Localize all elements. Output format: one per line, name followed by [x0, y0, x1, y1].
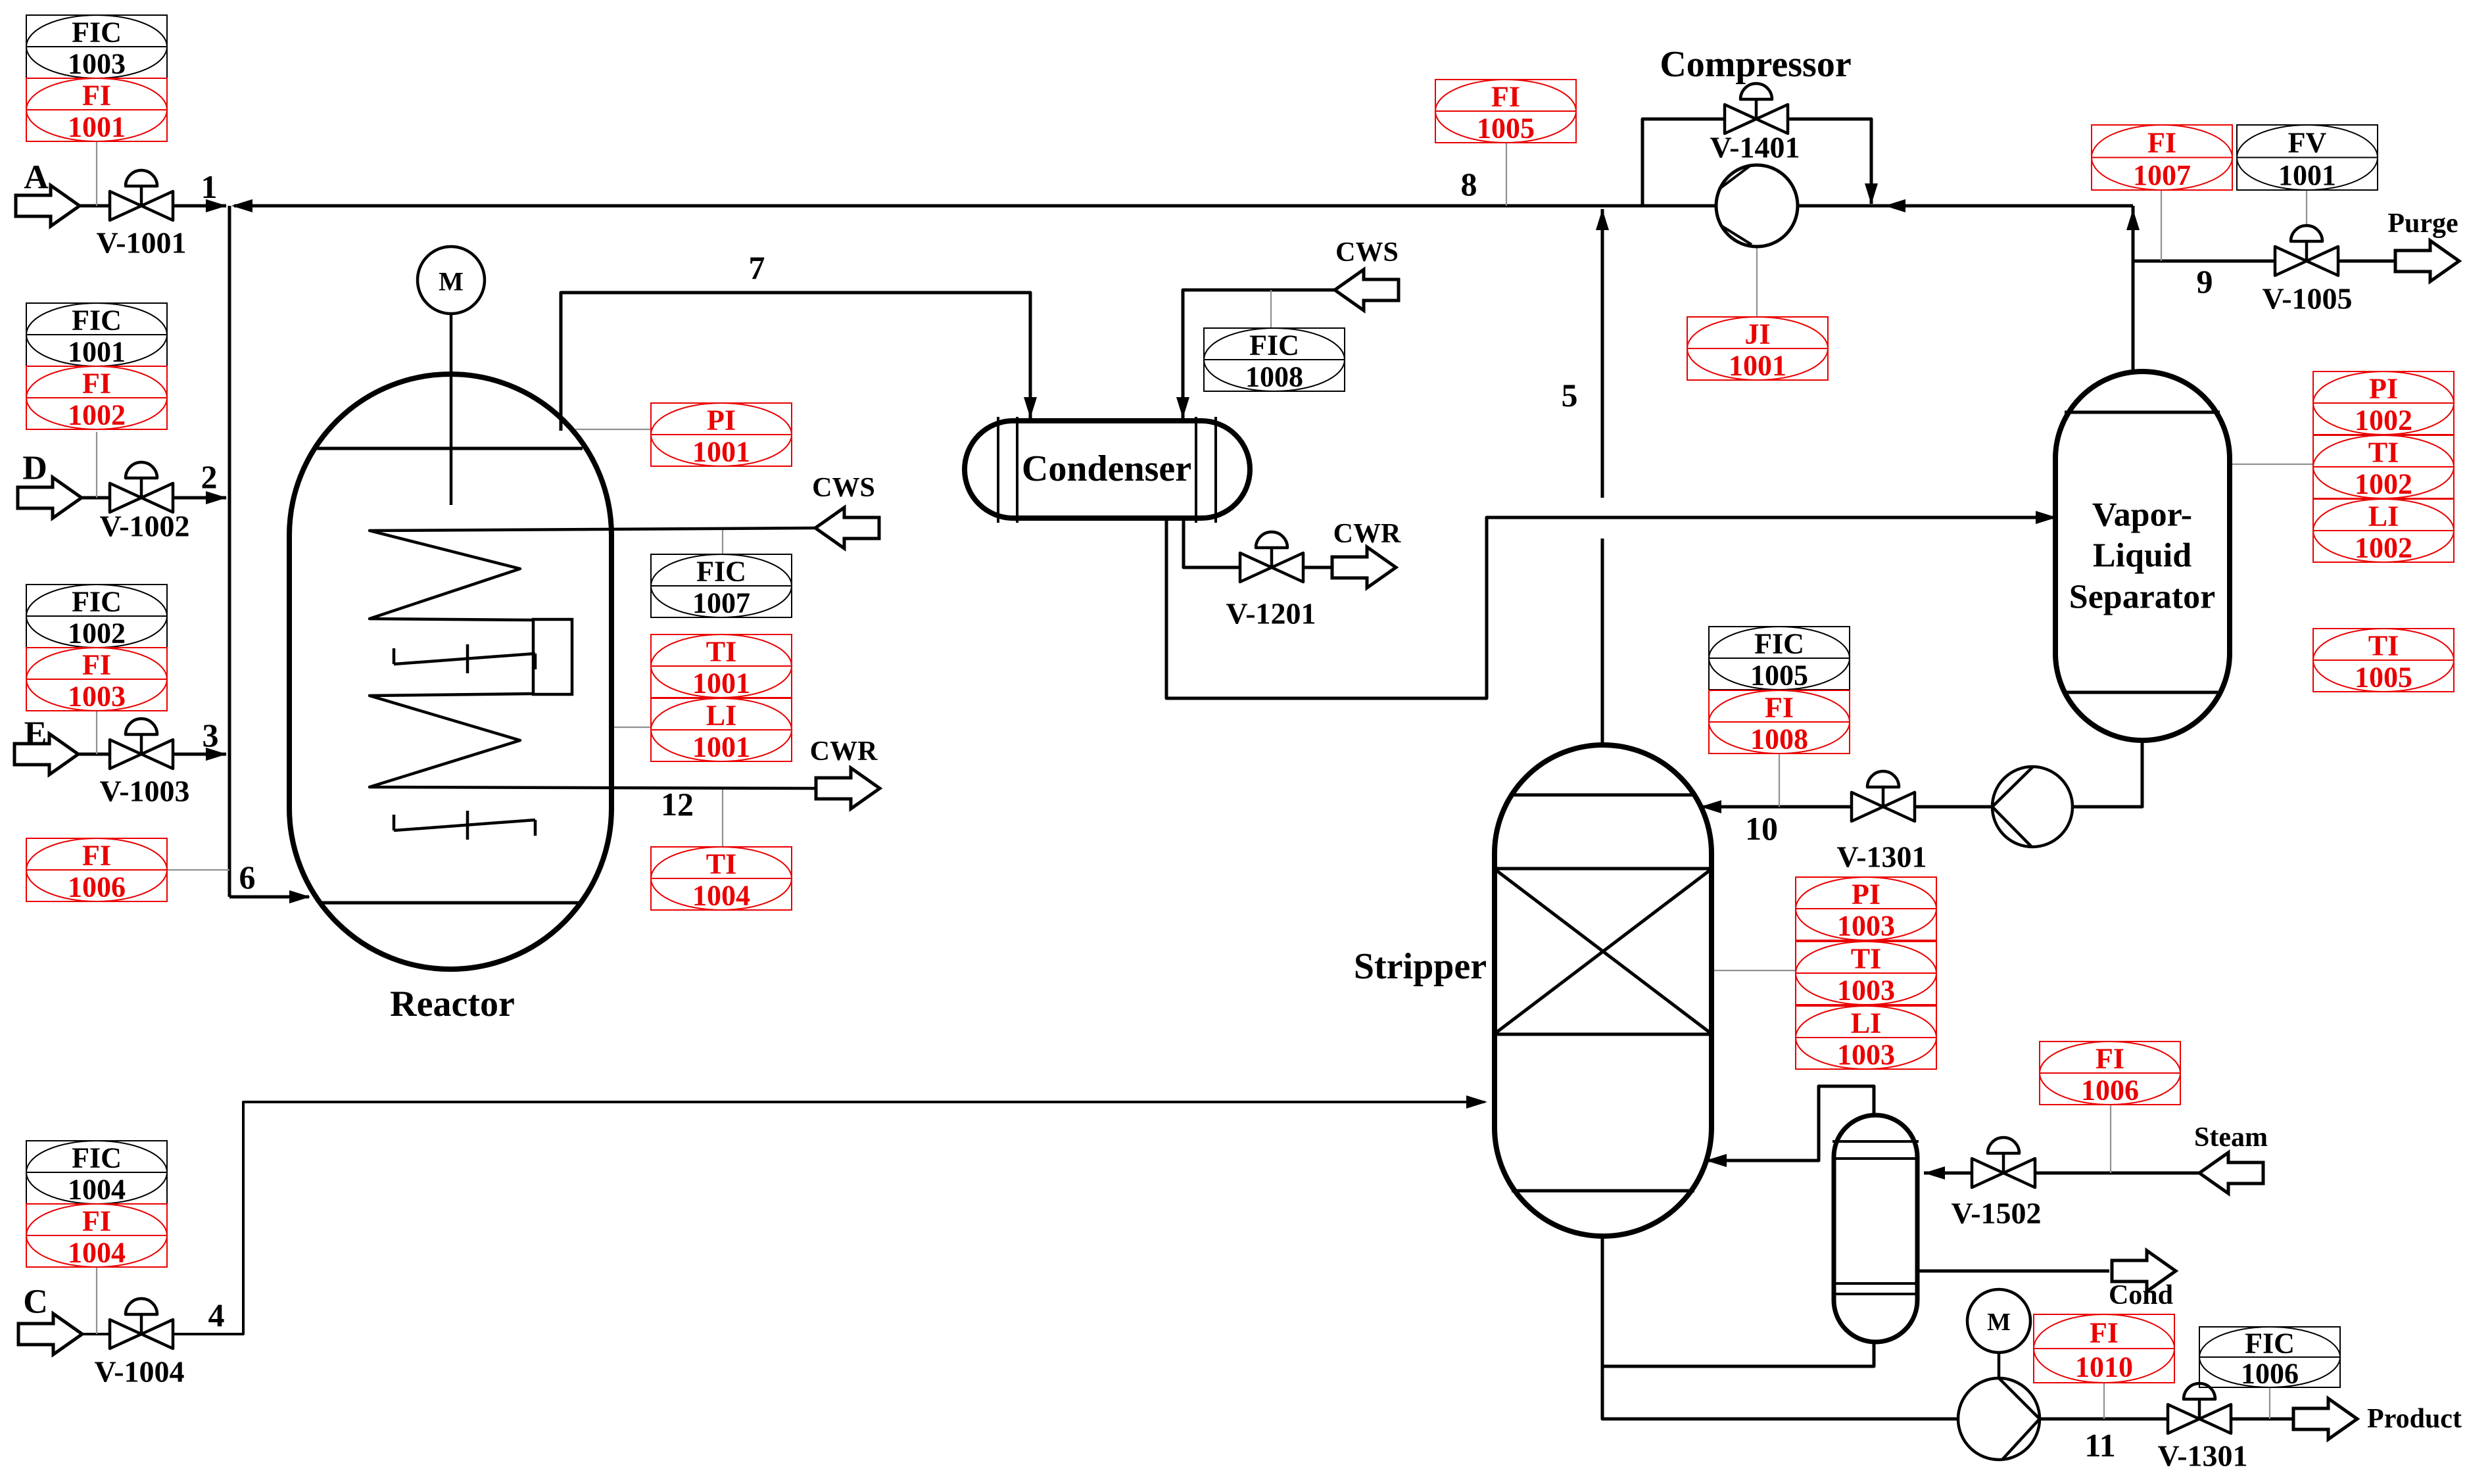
- svg-text:2: 2: [201, 458, 218, 495]
- svg-text:V-1201: V-1201: [1226, 597, 1316, 631]
- svg-text:5: 5: [1562, 377, 1578, 414]
- svg-text:1001: 1001: [692, 731, 750, 763]
- svg-text:FI: FI: [82, 840, 111, 872]
- svg-text:3: 3: [203, 717, 219, 754]
- svg-text:A: A: [24, 159, 49, 197]
- svg-text:4: 4: [208, 1297, 225, 1333]
- svg-text:D: D: [22, 450, 47, 487]
- svg-text:1002: 1002: [2355, 532, 2412, 564]
- svg-text:V-1001: V-1001: [96, 226, 186, 260]
- svg-text:E: E: [24, 715, 47, 753]
- svg-text:CWR: CWR: [1333, 519, 1401, 549]
- svg-text:FIC: FIC: [1754, 628, 1804, 660]
- svg-text:Product: Product: [2367, 1404, 2462, 1434]
- svg-text:FV: FV: [2288, 126, 2327, 158]
- svg-text:1002: 1002: [68, 617, 126, 650]
- svg-text:FI: FI: [2090, 1317, 2119, 1349]
- svg-text:7: 7: [749, 249, 765, 286]
- svg-text:FI: FI: [1491, 81, 1520, 113]
- svg-text:FIC: FIC: [72, 586, 122, 618]
- svg-text:V-1003: V-1003: [99, 775, 189, 808]
- svg-text:JI: JI: [1744, 318, 1770, 350]
- svg-text:CWR: CWR: [810, 736, 878, 767]
- svg-text:1002: 1002: [2355, 404, 2412, 437]
- svg-text:1006: 1006: [68, 871, 126, 903]
- svg-text:11: 11: [2084, 1427, 2115, 1464]
- svg-text:1005: 1005: [1477, 112, 1535, 145]
- svg-text:1001: 1001: [1729, 350, 1786, 382]
- svg-text:FIC: FIC: [1249, 329, 1299, 362]
- svg-text:8: 8: [1461, 166, 1477, 203]
- svg-text:V-1004: V-1004: [94, 1355, 184, 1389]
- svg-text:TI: TI: [2368, 630, 2399, 662]
- svg-text:1002: 1002: [2355, 468, 2412, 500]
- svg-text:1003: 1003: [1837, 974, 1895, 1007]
- svg-text:1004: 1004: [692, 880, 750, 912]
- svg-text:9: 9: [2197, 263, 2213, 300]
- svg-text:FIC: FIC: [2245, 1328, 2295, 1360]
- svg-text:FI: FI: [1765, 692, 1794, 724]
- svg-text:1005: 1005: [1750, 659, 1808, 692]
- svg-text:PI: PI: [707, 404, 736, 437]
- svg-text:V-1005: V-1005: [2262, 282, 2352, 316]
- svg-text:Cond: Cond: [2109, 1280, 2173, 1310]
- svg-text:1003: 1003: [68, 48, 126, 80]
- svg-text:PI: PI: [1852, 878, 1880, 911]
- svg-text:1010: 1010: [2075, 1351, 2133, 1383]
- svg-text:Reactor: Reactor: [390, 984, 515, 1024]
- svg-text:FIC: FIC: [696, 556, 746, 588]
- svg-text:1007: 1007: [2133, 159, 2191, 191]
- svg-text:1003: 1003: [1837, 1039, 1895, 1071]
- svg-text:Separator: Separator: [2069, 579, 2215, 616]
- svg-text:6: 6: [239, 859, 256, 896]
- svg-text:1001: 1001: [2278, 159, 2336, 191]
- svg-text:V-1401: V-1401: [1710, 131, 1800, 164]
- svg-text:Steam: Steam: [2194, 1122, 2268, 1153]
- svg-text:FIC: FIC: [72, 16, 122, 49]
- svg-text:M: M: [439, 267, 464, 297]
- svg-text:Compressor: Compressor: [1660, 44, 1851, 85]
- svg-text:V-1301: V-1301: [1836, 840, 1927, 874]
- svg-text:PI: PI: [2369, 373, 2398, 405]
- svg-text:V-1301: V-1301: [2157, 1439, 2247, 1473]
- svg-text:CWS: CWS: [812, 473, 875, 503]
- svg-text:FI: FI: [82, 368, 111, 400]
- svg-text:Purge: Purge: [2387, 208, 2458, 239]
- svg-text:1006: 1006: [2241, 1358, 2299, 1390]
- svg-text:1006: 1006: [2081, 1074, 2139, 1107]
- svg-text:1002: 1002: [68, 399, 126, 431]
- svg-text:1001: 1001: [692, 436, 750, 468]
- svg-text:10: 10: [1745, 810, 1778, 847]
- svg-text:TI: TI: [706, 636, 736, 668]
- svg-text:V-1502: V-1502: [1951, 1197, 2041, 1230]
- svg-text:TI: TI: [706, 848, 736, 880]
- svg-text:1003: 1003: [68, 681, 126, 713]
- svg-text:1001: 1001: [68, 336, 126, 368]
- svg-text:TI: TI: [1851, 943, 1881, 975]
- svg-text:1007: 1007: [692, 587, 750, 619]
- svg-text:V-1002: V-1002: [99, 510, 189, 543]
- svg-text:FI: FI: [82, 649, 111, 681]
- svg-text:TI: TI: [2368, 437, 2399, 469]
- svg-text:FI: FI: [82, 1205, 111, 1237]
- svg-text:FIC: FIC: [72, 304, 122, 337]
- svg-text:12: 12: [661, 786, 694, 823]
- svg-text:1: 1: [201, 168, 218, 205]
- svg-text:1001: 1001: [692, 667, 750, 700]
- svg-text:FI: FI: [2147, 126, 2176, 158]
- svg-text:FIC: FIC: [72, 1142, 122, 1174]
- svg-text:LI: LI: [2368, 500, 2399, 533]
- svg-text:1008: 1008: [1750, 723, 1808, 755]
- svg-text:CWS: CWS: [1335, 237, 1399, 268]
- svg-text:1008: 1008: [1245, 361, 1303, 393]
- svg-text:1005: 1005: [2355, 661, 2412, 694]
- svg-text:Liquid: Liquid: [2093, 537, 2192, 575]
- svg-text:C: C: [23, 1283, 48, 1321]
- svg-text:Vapor-: Vapor-: [2092, 496, 2192, 534]
- svg-text:M: M: [1987, 1308, 2011, 1336]
- svg-text:Condenser: Condenser: [1022, 448, 1191, 489]
- svg-text:1004: 1004: [68, 1237, 126, 1269]
- svg-text:LI: LI: [1851, 1007, 1881, 1040]
- svg-text:FI: FI: [2096, 1043, 2124, 1075]
- svg-text:1004: 1004: [68, 1174, 126, 1206]
- svg-text:LI: LI: [706, 700, 736, 732]
- svg-text:FI: FI: [82, 80, 111, 112]
- svg-text:1001: 1001: [68, 111, 126, 143]
- svg-text:Stripper: Stripper: [1354, 946, 1487, 987]
- svg-text:1003: 1003: [1837, 910, 1895, 942]
